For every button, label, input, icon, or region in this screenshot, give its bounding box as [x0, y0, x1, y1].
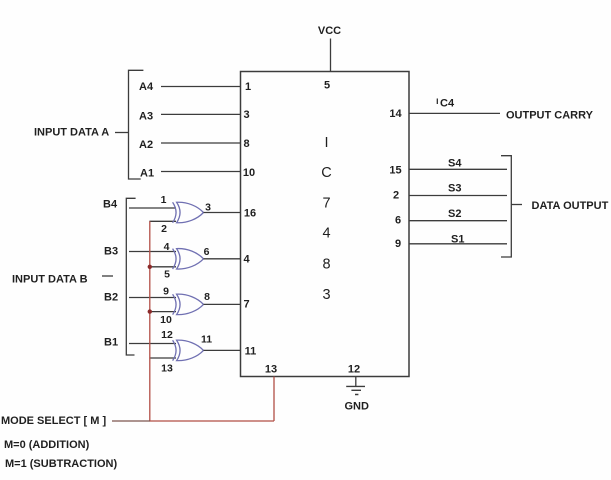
wire VCC to pin 5	[330, 39, 332, 72]
svg-text:I: I	[324, 135, 328, 151]
svg-text:12: 12	[348, 364, 360, 376]
svg-text:14: 14	[389, 108, 402, 120]
wire B1 to XOR4 input 12	[129, 343, 176, 345]
svg-text:4: 4	[243, 254, 250, 266]
svg-text:VCC: VCC	[318, 25, 341, 37]
wire A4 to pin 1	[161, 86, 241, 88]
wire B3 to XOR2 input 4	[129, 251, 176, 253]
svg-text:7: 7	[243, 299, 249, 311]
wire XOR1 input 2 stub	[149, 220, 176, 222]
svg-text:B2: B2	[104, 292, 118, 304]
wire A1 to pin 10	[161, 171, 241, 173]
svg-text:C: C	[321, 165, 331, 181]
wire mode select horizontal red	[150, 420, 275, 422]
wire XOR4 out to pin 11	[204, 349, 241, 351]
wire XOR3 input 10 stub	[149, 311, 176, 313]
svg-text:C4: C4	[440, 98, 455, 110]
xor gate G3	[173, 294, 204, 314]
svg-text:13: 13	[265, 364, 277, 376]
svg-text:7: 7	[322, 195, 330, 211]
svg-text:GND: GND	[345, 401, 370, 413]
svg-text:M=0 (ADDITION): M=0 (ADDITION)	[4, 439, 90, 451]
wire pin 14 to output carry	[409, 112, 500, 114]
svg-text:6: 6	[395, 215, 401, 227]
svg-text:OUTPUT CARRY: OUTPUT CARRY	[506, 110, 594, 122]
svg-text:S2: S2	[448, 208, 461, 220]
svg-text:5: 5	[324, 80, 330, 92]
ground stem	[355, 377, 357, 387]
wire XOR2 out to pin 4	[204, 258, 241, 260]
ground bar 2	[351, 389, 361, 391]
wire INPUT DATA B to bracket	[102, 275, 113, 277]
wire pin 13 red vertical	[273, 377, 275, 422]
wire B2 to XOR3 input 9	[129, 297, 176, 299]
svg-text:S4: S4	[448, 158, 462, 170]
wire XOR1 out to pin 16	[204, 212, 241, 214]
wire B4 to XOR1 input 1	[129, 207, 176, 209]
svg-text:16: 16	[244, 208, 256, 220]
svg-text:A1: A1	[140, 168, 154, 180]
ground bar 1	[346, 385, 365, 387]
node C4 tick	[436, 99, 438, 105]
svg-text:3: 3	[205, 202, 211, 214]
junction dot at XOR2 input 5	[148, 265, 152, 269]
svg-text:10: 10	[243, 167, 255, 179]
ground bar 3	[355, 394, 358, 396]
svg-text:B1: B1	[104, 337, 118, 349]
wire XOR4 input 13 stub	[149, 357, 176, 359]
svg-text:1: 1	[245, 81, 251, 93]
svg-text:2: 2	[161, 223, 167, 235]
svg-text:A2: A2	[139, 139, 153, 151]
wire INPUT DATA A to bracket	[115, 132, 129, 134]
svg-text:9: 9	[163, 286, 169, 298]
svg-text:15: 15	[389, 165, 401, 177]
svg-text:MODE SELECT [ M ]: MODE SELECT [ M ]	[1, 415, 106, 427]
svg-text:4: 4	[164, 241, 170, 253]
wire pin 15 S4	[409, 168, 507, 170]
svg-text:4: 4	[322, 226, 330, 242]
svg-text:INPUT DATA B: INPUT DATA B	[12, 274, 88, 286]
svg-text:9: 9	[395, 238, 401, 250]
wire A2 to pin 8	[161, 142, 241, 144]
xor gate G4	[173, 340, 204, 360]
svg-text:8: 8	[322, 256, 330, 272]
wire mode select lead gray	[112, 420, 150, 422]
wire A3 to pin 3	[161, 113, 241, 115]
svg-text:8: 8	[243, 138, 249, 150]
svg-text:12: 12	[161, 329, 173, 341]
svg-text:A4: A4	[139, 81, 154, 93]
svg-text:2: 2	[393, 190, 399, 202]
svg-text:S3: S3	[448, 183, 461, 195]
svg-text:DATA OUTPUT: DATA OUTPUT	[532, 200, 609, 212]
IC U1 label I C 7 4 8 3	[321, 135, 331, 303]
xor gate G2	[173, 249, 204, 269]
svg-text:13: 13	[161, 363, 173, 375]
wire pin 9 S1	[409, 243, 507, 245]
svg-text:3: 3	[322, 287, 330, 303]
wire XOR2 input 5 stub	[149, 266, 176, 268]
svg-text:11: 11	[245, 346, 257, 358]
svg-text:3: 3	[243, 109, 249, 121]
xor gate G1	[173, 202, 204, 223]
svg-text:M=1 (SUBTRACTION): M=1 (SUBTRACTION)	[5, 458, 117, 470]
svg-text:A3: A3	[139, 111, 153, 123]
wire XOR3 out to pin 7	[204, 303, 241, 305]
mode select red bus vertical	[149, 221, 151, 421]
IC U1 7483 body	[241, 72, 410, 377]
bracket data output	[501, 156, 511, 257]
svg-text:11: 11	[201, 334, 212, 346]
svg-text:5: 5	[164, 269, 170, 281]
svg-text:10: 10	[160, 314, 172, 326]
wire bracket to DATA OUTPUT	[511, 204, 522, 206]
junction dot at XOR3 input 10	[148, 309, 152, 313]
svg-text:1: 1	[161, 194, 167, 206]
svg-text:B4: B4	[103, 199, 118, 211]
wire pin 2 S3	[409, 195, 507, 197]
svg-text:INPUT DATA A: INPUT DATA A	[34, 127, 109, 139]
svg-text:6: 6	[204, 246, 210, 258]
bracket input data A	[129, 70, 144, 179]
svg-text:B3: B3	[104, 246, 118, 258]
bracket input data B	[126, 198, 135, 355]
wire pin 6 S2	[409, 220, 507, 222]
svg-text:8: 8	[204, 291, 210, 303]
